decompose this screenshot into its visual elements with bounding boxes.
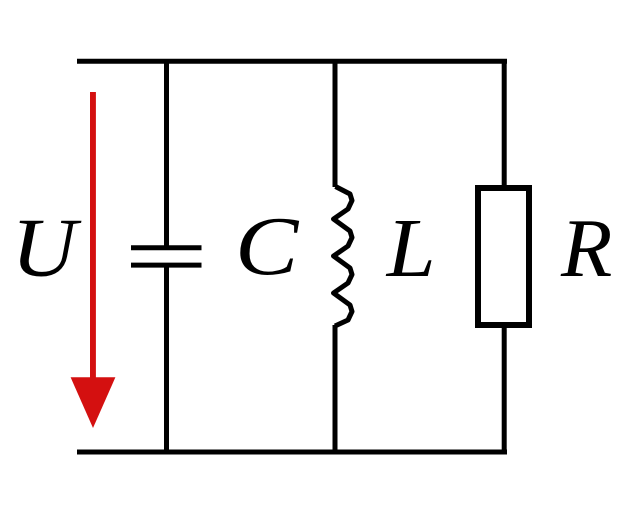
wire inductor bottom lead <box>333 325 338 454</box>
svg-text:U: U <box>11 200 81 293</box>
wire resistor top lead <box>502 59 507 188</box>
wire bottom rail <box>77 450 507 455</box>
wire resistor bottom lead <box>502 325 507 454</box>
svg-text:L: L <box>386 201 436 295</box>
resistor R <box>478 59 529 454</box>
svg-text:C: C <box>235 200 300 293</box>
wire capacitor top lead <box>164 59 169 248</box>
resistor body <box>478 188 529 325</box>
wire top rail <box>77 59 507 64</box>
inductor coil <box>334 187 353 327</box>
capacitor C <box>131 59 202 454</box>
capacitor bottom plate <box>131 263 202 268</box>
wire capacitor bottom lead <box>164 265 169 454</box>
wire inductor top lead <box>333 59 338 187</box>
voltage arrow U (red) <box>71 92 116 428</box>
inductor L <box>334 59 353 454</box>
svg-text:R: R <box>560 202 612 295</box>
capacitor top plate <box>131 245 202 250</box>
